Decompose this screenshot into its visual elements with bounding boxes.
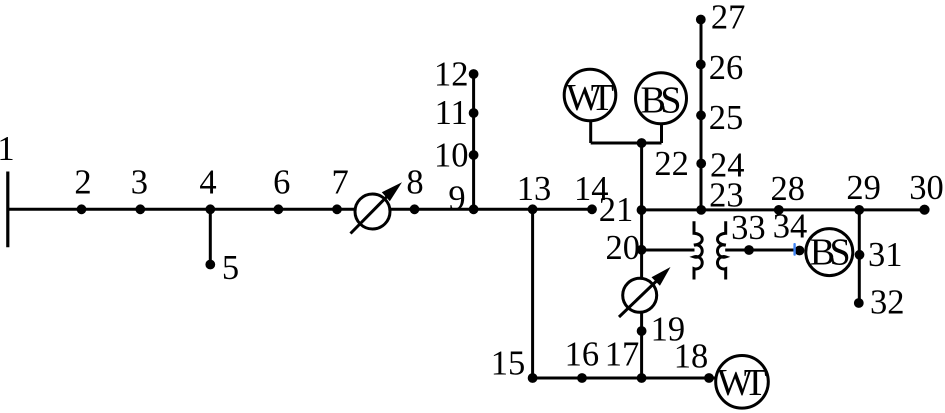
svg-text:32: 32: [870, 284, 905, 322]
transformer T1 primary coil: [694, 221, 702, 279]
node 23: [696, 205, 706, 215]
node 4: [205, 204, 215, 214]
svg-text:25: 25: [709, 99, 744, 137]
svg-text:9: 9: [448, 180, 465, 218]
generator BS1 circle: [636, 73, 687, 124]
svg-text:2: 2: [74, 164, 91, 202]
node 6: [274, 204, 284, 214]
generator BS2 circle: [806, 229, 853, 276]
node 34: [795, 246, 805, 256]
svg-text:4: 4: [199, 164, 216, 202]
node 5: [205, 260, 215, 270]
wire 22 tie: [591, 142, 662, 145]
regulator SVR2 arrowhead: [652, 267, 671, 286]
node 13: [528, 204, 538, 214]
svg-text:29: 29: [846, 169, 881, 207]
node 2: [77, 204, 87, 214]
svg-text:20: 20: [606, 229, 641, 267]
svg-text:10: 10: [434, 137, 469, 175]
node 22 junction: [637, 138, 647, 148]
svg-text:16: 16: [565, 335, 600, 373]
wire BS1 drop: [660, 122, 663, 143]
wire 29-32 drop: [858, 210, 861, 303]
wire WT1 drop: [589, 120, 592, 143]
text cursor artifact: [793, 243, 795, 256]
svg-text:33: 33: [731, 209, 766, 247]
node 33: [744, 245, 754, 255]
svg-text:15: 15: [491, 344, 526, 382]
regulator SVR2 arrow shaft: [619, 281, 657, 317]
node 18: [704, 373, 714, 383]
svg-text:34: 34: [773, 208, 808, 246]
svg-text:6: 6: [273, 164, 290, 202]
svg-text:WT: WT: [566, 77, 614, 119]
node 12: [469, 69, 479, 79]
node 8: [410, 204, 420, 214]
transformer T1 secondary coil: [717, 221, 725, 279]
node 11: [469, 108, 479, 118]
svg-text:30: 30: [909, 169, 944, 207]
node 16: [577, 373, 587, 383]
svg-text:28: 28: [770, 170, 805, 208]
node 1 bus bar: [6, 172, 9, 248]
svg-text:13: 13: [517, 170, 552, 208]
wire 4-5: [209, 209, 212, 264]
svg-text:22: 22: [654, 145, 689, 183]
svg-text:11: 11: [435, 94, 468, 132]
svg-text:7: 7: [331, 164, 348, 202]
wire main feeder 1-14: [8, 208, 592, 211]
node 29: [854, 205, 864, 215]
node 15: [528, 373, 538, 383]
svg-text:27: 27: [711, 0, 746, 37]
wire 15-18 bottom feeder: [533, 377, 716, 380]
node 31: [855, 250, 865, 260]
node 21: [637, 205, 647, 215]
wire 17-22 riser: [640, 143, 643, 378]
svg-text:17: 17: [605, 335, 640, 373]
node 10: [469, 150, 479, 160]
node 30: [919, 205, 929, 215]
node 14: [587, 204, 597, 214]
svg-text:BS: BS: [810, 232, 851, 274]
node 25: [696, 110, 706, 120]
wire 13-15 drop: [531, 209, 534, 378]
node 7: [332, 204, 342, 214]
svg-text:1: 1: [0, 130, 15, 168]
wire 20-transformer: [642, 249, 695, 252]
node 28: [774, 205, 784, 215]
node 32: [854, 298, 864, 308]
svg-text:WT: WT: [717, 362, 767, 404]
svg-text:BS: BS: [641, 80, 682, 122]
regulator SVR2 circle: [623, 278, 657, 312]
node 17: [637, 373, 647, 383]
svg-text:12: 12: [434, 56, 469, 94]
node 24: [696, 159, 706, 169]
node 26: [696, 60, 706, 70]
wire transformer-34: [725, 249, 801, 252]
svg-text:19: 19: [651, 311, 686, 349]
svg-text:26: 26: [709, 49, 744, 87]
svg-text:5: 5: [222, 249, 239, 287]
node 9: [469, 204, 479, 214]
svg-text:8: 8: [406, 164, 423, 202]
svg-text:3: 3: [131, 164, 148, 202]
regulator SVR1 arrowhead: [382, 182, 402, 201]
node 3: [135, 204, 145, 214]
wire main feeder 21-30: [642, 208, 925, 211]
wire 9-12 riser: [472, 74, 475, 209]
regulator SVR1 arrow shaft: [351, 197, 388, 234]
svg-text:31: 31: [868, 236, 903, 274]
svg-text:24: 24: [710, 146, 745, 184]
node 20: [637, 245, 647, 255]
generator WT2 circle: [716, 356, 769, 409]
regulator SVR1 circle: [355, 194, 390, 229]
node 19: [637, 326, 647, 336]
wire 23-27 riser: [700, 20, 703, 210]
node 27: [696, 15, 706, 25]
svg-text:21: 21: [599, 191, 634, 229]
generator WT1 circle: [564, 69, 616, 121]
